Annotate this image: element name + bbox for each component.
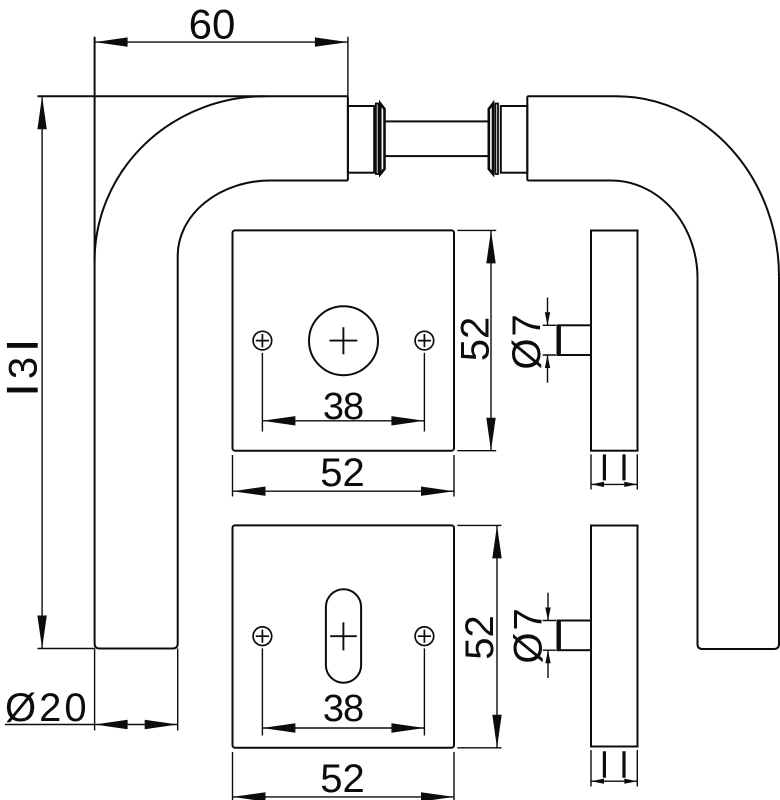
upper side-view arrowheads <box>591 482 604 487</box>
dim 52 lower-right line <box>496 525 498 747</box>
left handle outer corner curve <box>95 96 266 261</box>
dim O7 lower ticks <box>543 621 556 651</box>
right handle tube bottom edge <box>527 180 612 182</box>
lower stub end cap <box>557 621 561 649</box>
upper rosette square <box>233 230 455 450</box>
dim O7 upper arrow lines <box>547 298 549 383</box>
spindle <box>385 121 489 156</box>
upper side-view rosette plate <box>591 231 638 451</box>
left neck block <box>348 106 374 173</box>
upper rosette handle hole circle <box>309 306 378 375</box>
svg-text:3: 3 <box>2 357 46 379</box>
dim 52 upper-bottom extensions <box>233 455 455 497</box>
dim 60 line <box>95 41 348 43</box>
right handle grip outer edge <box>698 277 780 649</box>
dim 38 upper line <box>262 420 424 422</box>
dim 52 upper-right line <box>490 230 492 450</box>
svg-text:60: 60 <box>189 1 236 48</box>
right collar band <box>495 104 498 175</box>
left handle outer edge + grip <box>95 37 178 649</box>
right handle outer corner curve <box>616 96 779 276</box>
svg-text:Ø20: Ø20 <box>5 686 90 730</box>
svg-text:52: 52 <box>458 615 502 660</box>
dim O7 lower arrow lines <box>547 593 549 678</box>
dim 52 lower-bottom line <box>233 796 455 798</box>
left collar chamfer ring <box>380 104 384 175</box>
dim 38 upper leaders <box>262 353 424 432</box>
dim 38 lower arrows <box>262 723 295 732</box>
lower side-view rosette plate <box>591 526 638 747</box>
right handle tube top edge <box>527 95 617 97</box>
dim 60 arrows <box>95 37 128 46</box>
right collar chamfer ring <box>489 104 493 175</box>
lower side-view arrowheads <box>591 779 604 784</box>
lower side-view arrow line <box>591 780 637 782</box>
lower side-view extensions <box>591 750 637 787</box>
dim 38 lower leaders <box>262 648 424 735</box>
dim 38 lower line <box>262 727 424 729</box>
dim 52 lower-bottom arrows <box>233 792 266 800</box>
left collar band <box>376 104 379 175</box>
lower rosette square <box>233 525 455 747</box>
upper right screw <box>415 331 434 350</box>
lower right screw <box>415 627 434 646</box>
left handle tube top edge with extension <box>38 95 348 97</box>
upper side-view spindle stub <box>558 325 592 355</box>
dim 52 lower-right extensions <box>457 525 501 747</box>
dim 52 upper-bottom line <box>233 490 455 492</box>
svg-text:Ø7: Ø7 <box>507 606 551 663</box>
lower left screw <box>253 627 272 646</box>
upper stub end cap <box>557 326 561 354</box>
lower side-view screw bars <box>604 751 624 778</box>
dim O7 upper ticks <box>543 325 556 355</box>
lower side-view spindle stub <box>558 621 592 651</box>
svg-text:38: 38 <box>323 688 363 730</box>
dim 131 line <box>41 96 43 648</box>
dim O20 extensions <box>95 649 178 731</box>
right handle inner corner curve <box>611 181 697 279</box>
dim 52 lower-bottom extensions <box>233 752 455 800</box>
dim 52 upper-right extensions <box>457 230 496 450</box>
arrowheads <box>37 37 637 800</box>
dim 131 arrows <box>37 96 46 129</box>
right neck block <box>501 106 528 173</box>
dim O7 lower arrowheads <box>545 608 550 621</box>
svg-text:Ø7: Ø7 <box>505 312 549 369</box>
dim 38 upper arrows <box>262 416 295 425</box>
dim O20 shelf and line <box>5 724 178 726</box>
label 131 (plain-bar ones) <box>7 343 38 392</box>
dim 52 lower-right arrows <box>492 525 501 558</box>
lower rosette center cross <box>330 622 357 650</box>
svg-text:38: 38 <box>323 386 363 428</box>
dim 131 bottom extension <box>38 648 95 650</box>
svg-text:52: 52 <box>320 757 365 800</box>
upper rosette center cross <box>330 327 358 354</box>
right handle tube left edge <box>526 96 528 180</box>
upper side-view extensions <box>591 454 637 489</box>
svg-text:52: 52 <box>320 451 365 495</box>
lower rosette key obround <box>326 589 361 682</box>
upper side-view arrow line <box>591 483 637 485</box>
upper left screw <box>253 331 272 350</box>
svg-text:52: 52 <box>454 317 498 362</box>
dim 52 upper-bottom arrows <box>233 487 266 496</box>
left handle inner corner curve <box>178 181 271 257</box>
dim O7 upper arrowheads <box>545 312 550 325</box>
left handle tube right edge <box>347 96 349 180</box>
upper side-view screw bars <box>604 454 624 480</box>
left handle tube bottom edge <box>267 180 348 182</box>
dim 52 upper-right arrows <box>486 230 495 263</box>
dim 60 right extension <box>347 37 349 96</box>
dim O20 arrows <box>95 720 128 729</box>
